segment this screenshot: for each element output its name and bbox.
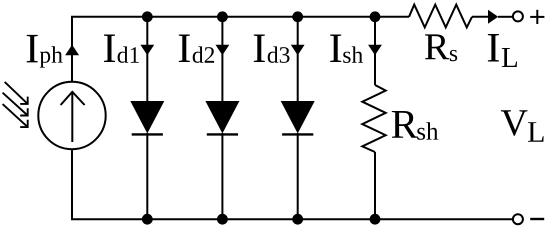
diode D3 cathode bar	[282, 133, 313, 135]
plus sign	[530, 16, 544, 18]
wire top rail	[72, 17, 409, 82]
wire diode branch 3 upper	[297, 17, 299, 102]
minus sign	[530, 218, 544, 220]
current source arrow shaft	[71, 93, 73, 143]
wire Rs to IL arrow	[472, 16, 489, 18]
Id2 current arrow (down triangle)	[216, 45, 230, 55]
label Iph	[27, 35, 63, 68]
current source U1 circle	[38, 82, 105, 149]
terminal + (open circle)	[513, 11, 523, 21]
label Id1	[104, 35, 139, 63]
Ish current arrow (down triangle)	[368, 45, 382, 55]
label Ish	[330, 35, 363, 63]
node junction dot bottom 4	[370, 214, 381, 225]
node junction dot top 4	[370, 11, 381, 22]
node junction dot top 2	[217, 11, 228, 22]
node junction dot top 3	[292, 11, 303, 22]
terminal - (open circle)	[513, 214, 523, 224]
node junction dot bottom 2	[217, 214, 228, 225]
wire diode branch 1 upper	[146, 17, 148, 102]
Iph current arrow (up triangle)	[65, 45, 79, 55]
light ray arrow 2 head	[20, 108, 28, 115]
wire shunt branch lower	[374, 152, 376, 219]
light ray arrow 1 head	[20, 97, 28, 104]
resistor Rs zigzag	[409, 5, 472, 28]
diode D3 triangle	[281, 101, 315, 134]
node junction dot bottom 3	[292, 214, 303, 225]
wire arrow to + terminal	[498, 16, 512, 18]
Id3 current arrow (down triangle)	[291, 45, 305, 55]
label Id2	[179, 35, 214, 63]
label Id3	[254, 35, 290, 63]
node junction dot bottom 1	[142, 214, 153, 225]
current source arrow head	[61, 92, 85, 105]
diode D1 triangle	[130, 101, 164, 134]
light ray arrow 3 shaft	[3, 104, 28, 127]
wire diode branch 2 upper	[221, 17, 223, 102]
wire diode branch 3 lower	[297, 133, 299, 219]
resistor Rsh zigzag	[362, 85, 385, 152]
light ray arrow 1 shaft	[5, 82, 28, 104]
wire shunt branch upper	[374, 17, 376, 85]
diode D1 cathode bar	[132, 133, 163, 135]
light ray arrow 3 head	[20, 120, 28, 127]
Id1 current arrow (down triangle)	[140, 45, 154, 55]
light ray arrow 2 shaft	[3, 93, 28, 116]
wire diode branch 1 lower	[146, 133, 148, 219]
wire diode branch 2 lower	[221, 133, 223, 219]
label VL	[501, 110, 544, 142]
node junction dot top 1	[142, 11, 153, 22]
diode D2 cathode bar	[207, 133, 238, 135]
diode D2 triangle	[205, 101, 239, 134]
IL current arrow (right triangle)	[488, 10, 498, 24]
label IL	[488, 34, 517, 67]
label Rs	[425, 34, 457, 61]
label Rsh	[392, 111, 438, 140]
wire bottom rail	[72, 150, 512, 220]
